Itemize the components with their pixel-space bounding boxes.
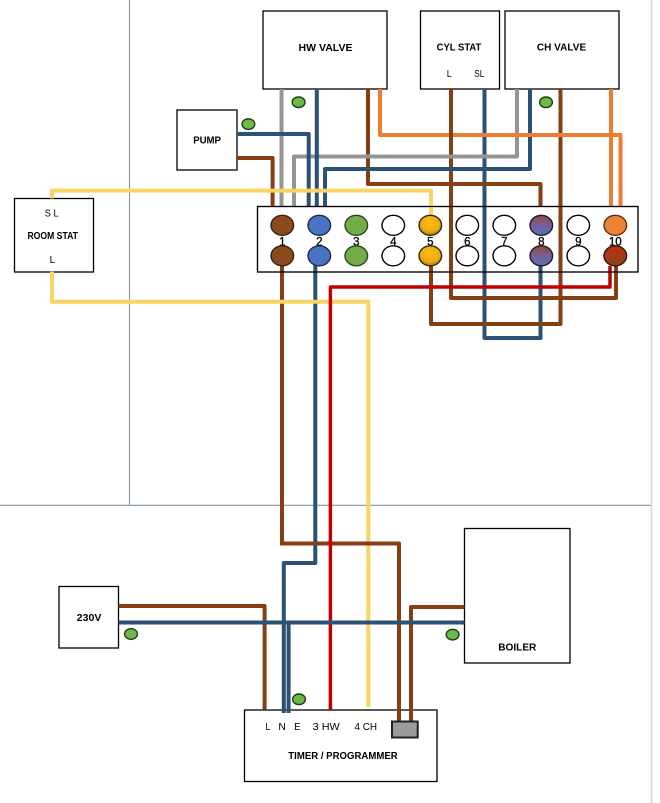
svg-text:PUMP: PUMP bbox=[193, 135, 221, 146]
svg-text:230V: 230V bbox=[77, 613, 102, 624]
svg-text:CH VALVE: CH VALVE bbox=[537, 42, 587, 53]
svg-text:CYL STAT: CYL STAT bbox=[437, 42, 482, 53]
svg-text:BOILER: BOILER bbox=[498, 642, 537, 653]
svg-text:3 HW: 3 HW bbox=[313, 722, 341, 733]
svg-text:HW VALVE: HW VALVE bbox=[299, 43, 353, 54]
svg-text:S L: S L bbox=[45, 208, 59, 219]
svg-text:4 CH: 4 CH bbox=[355, 722, 378, 733]
svg-text:SL: SL bbox=[474, 69, 484, 80]
svg-text:L: L bbox=[266, 722, 271, 733]
svg-text:E: E bbox=[294, 722, 301, 733]
svg-text:L: L bbox=[447, 69, 452, 80]
svg-text:TIMER / PROGRAMMER: TIMER / PROGRAMMER bbox=[288, 751, 398, 762]
svg-text:ROOM STAT: ROOM STAT bbox=[27, 231, 78, 242]
svg-text:N: N bbox=[278, 722, 286, 733]
svg-text:L: L bbox=[50, 255, 56, 266]
